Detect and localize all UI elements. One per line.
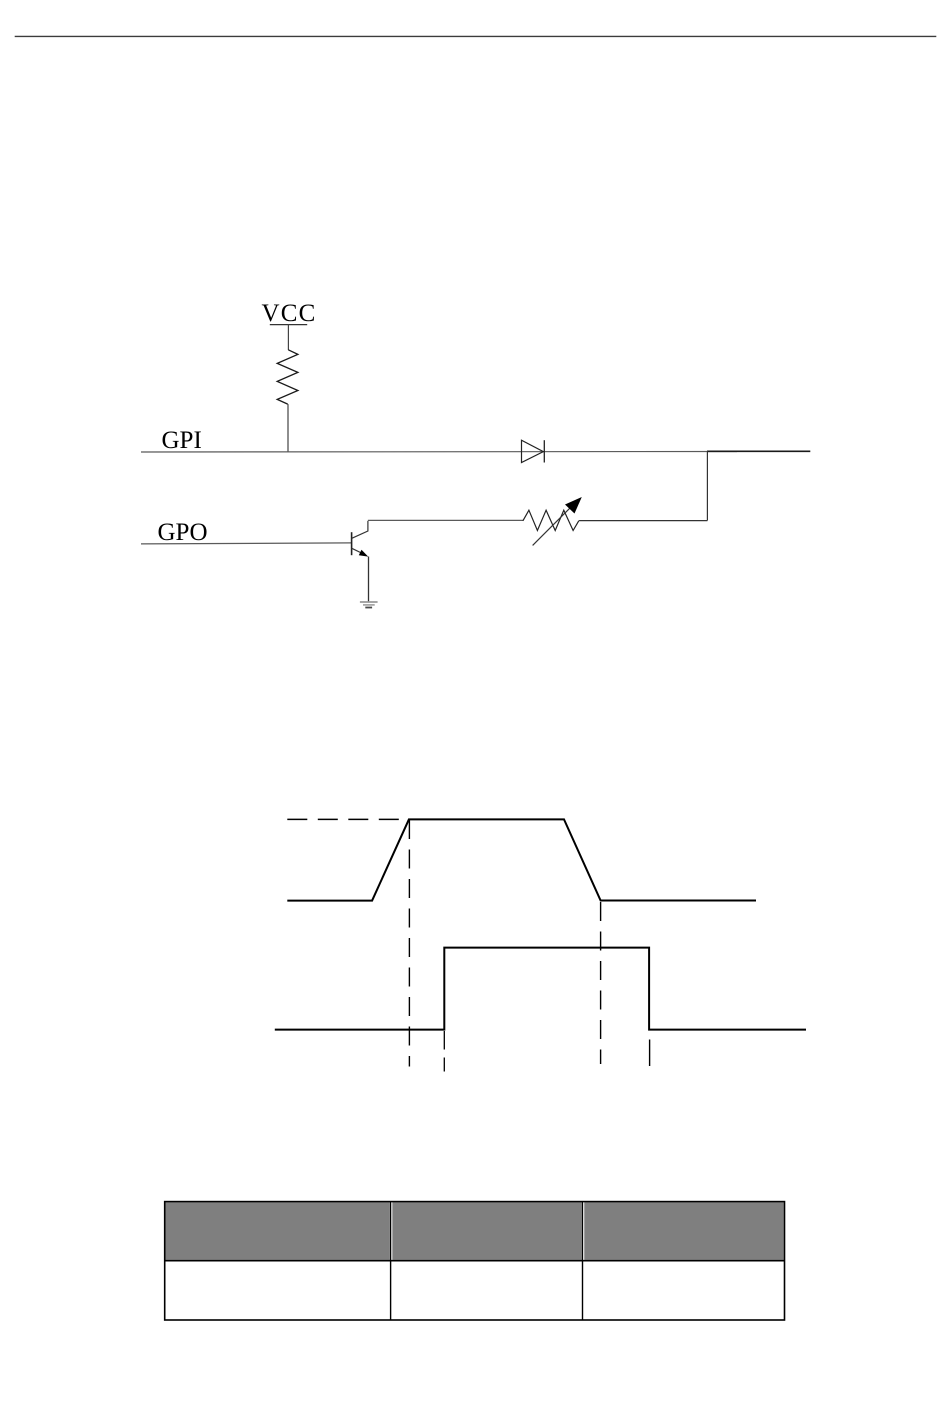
diode D1 [522,440,545,462]
dashed marker t2 vertical [600,902,602,1064]
transistor Q1 [352,521,369,557]
table header cell highlight edges [392,1202,584,1259]
dashed reference level line (upper waveform high) [287,818,399,820]
resistor R1 [277,350,298,404]
table column divider 2 [582,1202,584,1320]
wire collector to VR1 [368,519,523,521]
dashed marker below falling edge [649,1040,651,1067]
wire GPO net [141,543,352,544]
table column divider 1 [390,1202,392,1320]
table header/body divider [165,1260,785,1262]
wire R1 to GPI net [287,404,289,452]
wire junction vertical [706,451,708,520]
wire emitter to ground [368,557,370,603]
variable resistor VR1 [523,497,582,545]
waveform trace lower (GPO pulse) [275,948,806,1030]
table outer border [165,1202,785,1320]
wire GPI right segment [707,450,810,452]
wire VR1 to junction [579,520,708,522]
table header row (grey cells) [166,1202,784,1259]
svg-text:GPO: GPO [158,519,208,546]
waveform trace upper (GPI pulse) [287,819,756,900]
power rail VCC [262,300,317,327]
svg-text:VCC: VCC [262,300,317,327]
dashed marker t1 vertical [408,820,410,1067]
wire GPI net [141,451,737,454]
wire VCC to R1 [287,325,289,350]
svg-text:GPI: GPI [162,427,202,454]
ground [360,602,378,608]
dashed marker below rising edge [443,1031,445,1072]
